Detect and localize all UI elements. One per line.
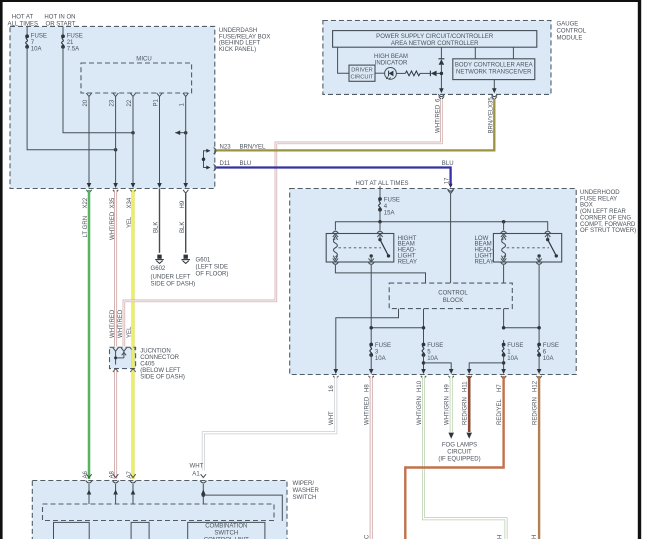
wire from hot-in-on feed to fuse 21 [62,26,64,36]
C405 bottom pin WHT/RED output [113,369,118,372]
svg-text:D11: D11 [220,161,231,167]
svg-text:CIRCUIT: CIRCUIT [350,74,374,80]
high relay NO contact [370,254,373,257]
low relay NO contact [537,254,540,257]
wire bus to high relay switch pin [379,222,381,231]
wire YEL from X34 to wiper switch A7 [132,190,135,479]
wire high relay coil to control block [335,265,425,283]
svg-text:HOT AT: HOT AT [12,15,34,21]
wire WHT/RED from H8 down (cut off) [370,376,373,539]
wire fuse 7 to MICU pin 23 net [27,47,116,150]
MICU pin 20 [86,93,91,96]
high relay coil L1 [333,239,337,257]
supply bus wire [335,222,547,231]
continuation stub wire to MICU pin 1 net [175,132,186,134]
diode D1 (vertical, on CAN line) [438,58,444,60]
svg-text:H: H [532,535,538,539]
wire power supply to driver circuit [338,47,349,73]
svg-text:MICU: MICU [136,57,151,63]
svg-text:FUSE: FUSE [375,343,391,349]
junction at diode node [440,72,444,76]
wire fuse 6 to H12 exit [538,355,540,371]
svg-text:H12: H12 [533,380,539,392]
svg-text:BLOCK: BLOCK [443,298,464,304]
svg-text:A8: A8 [110,470,116,478]
svg-text:UNDERHOOD: UNDERHOOD [580,190,620,196]
svg-text:21: 21 [67,40,74,46]
wire diode to node [437,72,442,74]
svg-text:C405: C405 [140,362,155,368]
wire MICU pin 23 to connector X35 [115,97,117,185]
underhood pin 17 connector [449,184,453,188]
fuse F4 15A [378,197,382,201]
svg-text:CONTROL: CONTROL [438,291,468,297]
svg-text:FUSE: FUSE [384,198,400,204]
svg-text:C: C [365,534,371,539]
wire A7 into switch [132,484,134,504]
svg-text:NETWORK TRANSCEIVER: NETWORK TRANSCEIVER [456,70,532,76]
svg-text:HOT AT ALL TIMES: HOT AT ALL TIMES [355,181,408,187]
svg-text:(BEHIND LEFT: (BEHIND LEFT [219,41,261,47]
junction connector C405 [110,347,136,368]
svg-text:BODY CONTROLLER AREA: BODY CONTROLLER AREA [455,63,534,69]
high beam headlight relay K1 [326,234,394,263]
branch wire fuse 5 to H9 exit [424,363,452,371]
svg-text:A7: A7 [127,470,133,478]
svg-text:INDICATOR: INDICATOR [375,60,408,66]
C405 bottom pin YEL [130,369,135,372]
high relay bottom pin cups [332,262,338,264]
wire A8 into switch [115,484,117,504]
MICU pin P1 [157,93,162,96]
wire low relay coil out of control block [503,309,505,328]
fuse F1 10A [503,340,505,345]
wire WHT/RED from C405 to wiper switch A8 [114,371,117,480]
wire YEL through C405 [132,349,135,369]
svg-text:WHT: WHT [190,463,204,469]
low side fuse bus [504,327,539,329]
svg-text:OF STRUT TOWER): OF STRUT TOWER) [580,228,636,234]
wire power supply to body controller left [474,47,476,59]
svg-text:DRIVER: DRIVER [351,68,373,74]
wiper switch pin A6 [86,474,91,477]
fuse F6 10A [538,340,540,345]
wire fuse 5 to H10 exit with branch [423,355,425,371]
svg-text:(BELOW LEFT: (BELOW LEFT [140,368,181,374]
wire LT GRN from X22 to wiper switch A6 [88,190,91,479]
wire BLU from D11 to underhood pin 17 [217,168,451,187]
svg-text:A1: A1 [192,471,200,477]
C405 internal join of WHT/RED wires [115,351,117,364]
svg-text:COMPT, FORWARD: COMPT, FORWARD [580,222,636,228]
wire YEL from C405 down to wiper switch A7 [132,371,135,480]
svg-text:MODULE: MODULE [557,36,583,42]
wire A6 into switch [88,484,90,504]
svg-text:10A: 10A [427,356,439,362]
fuse F5 10A [423,340,425,345]
svg-text:UNDERDASH: UNDERDASH [219,28,257,34]
wire MICU pin 1 to connector H9 [185,97,187,185]
underhood fuse relay box [290,189,577,375]
gauge module pin 6 connector [439,88,444,93]
ground G601 [184,255,188,259]
svg-text:BRN/YEL: BRN/YEL [489,107,495,134]
wire low relay coil through control block [503,265,505,283]
svg-text:WASHER: WASHER [293,488,320,494]
wire MICU pin P1 (BLK) through box edge [159,97,161,185]
fuse F3 10A [370,340,372,345]
wire resistor to diode [420,72,430,74]
combination switch internal junction strip [43,504,275,521]
wire WHT/GRN from H10 down to lower right [424,376,507,539]
low relay internal dashed link [507,247,549,249]
connector 16 at underhood box edge [334,369,339,374]
svg-text:KICK PANEL): KICK PANEL) [219,47,256,53]
svg-text:LT GRN: LT GRN [83,216,89,238]
connector X35 at underdash box edge [113,190,118,193]
connector H11 at underhood box edge [467,369,472,374]
junction on pin 23 wire [114,148,118,152]
wire fuse 21 to MICU pin 22 net [63,47,133,133]
svg-text:RELAY: RELAY [475,259,494,265]
svg-text:H11: H11 [463,381,469,392]
svg-text:SWITCH: SWITCH [293,495,317,501]
svg-text:HOT IN ON: HOT IN ON [44,15,75,21]
wiper/washer switch box [32,481,287,539]
wire A1 into switch with branch [202,484,204,504]
svg-text:BLK: BLK [154,222,160,233]
svg-text:7.5A: 7.5A [67,46,80,52]
svg-text:WHT/RED: WHT/RED [110,211,116,240]
wire power supply down through diode D1 to pin 6 [440,47,442,59]
high relay internal dashed link [339,247,382,249]
wire lamp to resistor [396,72,405,74]
C405 pin for WHT/RED input 2 [121,348,126,351]
svg-text:WHT/RED: WHT/RED [436,104,442,133]
connector H9 at underdash box edge [183,190,188,193]
wire bus to low relay coil pin [503,222,505,231]
svg-text:OF FLOOR): OF FLOOR) [196,272,229,278]
svg-text:RELAY: RELAY [398,259,417,265]
wiper switch pin A1 connector [201,474,206,477]
wire MICU pin 22 to connector X34 [132,97,134,185]
svg-text:CONTROL: CONTROL [557,28,587,34]
diode D2 (horizontal) [429,71,431,77]
MICU pin 23 [113,93,118,96]
combination switch control unit box [188,522,265,539]
wire blue input to control block [450,193,452,284]
connector H7 at underhood box edge [501,369,506,374]
svg-text:A6: A6 [83,470,89,478]
svg-text:23: 23 [109,99,115,106]
high side fuse bus [371,327,423,329]
svg-text:G601: G601 [196,258,211,264]
junction on pin 1 wire [184,131,188,135]
svg-text:P1: P1 [153,98,159,106]
svg-text:20: 20 [83,99,89,106]
wire from hot-at-all-times feed to fuse 7 [26,26,28,36]
branch wire fuse 1 to H11 exit [469,363,503,371]
svg-text:BLK: BLK [180,222,186,233]
svg-text:(IF EQUIPPED): (IF EQUIPPED) [438,457,480,463]
fuse F7 10A [25,34,29,38]
connector H10 at underhood box edge [421,369,426,374]
wire fuse 4 to bus [379,210,381,222]
svg-text:POWER SUPPLY CIRCUIT/CONTROLLE: POWER SUPPLY CIRCUIT/CONTROLLER [376,34,494,40]
control block U5 [389,283,512,309]
underdash fuse/relay box [10,26,215,188]
svg-text:(UNDER LEFT: (UNDER LEFT [151,275,191,281]
wire BLK from H9 to ground G601 [185,193,187,253]
svg-text:WHT/RED: WHT/RED [110,309,116,338]
junction on pin 22 wire [131,131,135,135]
svg-text:RED/GRN: RED/GRN [463,397,469,425]
combination switch element 1 [54,522,90,539]
low relay bottom pin cups [501,262,507,264]
svg-text:15A: 15A [384,210,396,216]
wire control block WHT output [336,309,399,371]
wire WHT/RED from gauge pin 6 to C405 [124,99,442,347]
svg-text:FUSE RELAY: FUSE RELAY [580,196,617,202]
wire control block to high-side fuse bus [423,309,425,340]
wire BLK from MICU P1 to ground G602 [159,189,161,253]
wire WHT from 16 to wiper switch A1 [203,376,335,471]
svg-text:FOG LAMPS: FOG LAMPS [442,443,477,449]
MICU pin 1 [183,93,188,96]
wire high relay contact down [370,265,372,340]
svg-text:CONNECTOR: CONNECTOR [140,355,179,361]
power supply circuit/controller area networ controller U2 [333,31,537,48]
svg-text:RED/GRN: RED/GRN [533,397,539,425]
connector H9 at underhood box edge [449,369,454,374]
svg-text:FUSE: FUSE [67,34,83,40]
svg-text:CORNER OF ENG: CORNER OF ENG [580,215,631,221]
gauge control module box [323,21,551,95]
wiper switch pin A8 [113,474,118,477]
svg-text:FUSE: FUSE [543,343,559,349]
wire MICU pin 20 to connector X22 [88,97,90,185]
svg-text:FUSE: FUSE [427,343,443,349]
svg-text:H: H [497,535,503,539]
svg-text:COMBINATION: COMBINATION [205,524,247,530]
MICU pin 22 [130,93,135,96]
svg-text:10A: 10A [507,356,519,362]
connector H12 at underhood box edge [537,369,542,374]
svg-text:SIDE OF DASH): SIDE OF DASH) [140,374,185,380]
junction low relay coil feed [502,220,506,224]
svg-text:22: 22 [127,99,133,106]
wire body controller to pin X35 [493,80,495,91]
svg-text:17: 17 [444,177,450,184]
ground G602 [157,255,161,259]
svg-text:BLU: BLU [240,161,252,167]
combination switch element 2 [131,522,149,539]
svg-text:GAUGE: GAUGE [557,21,579,27]
svg-text:10A: 10A [31,46,43,52]
svg-text:BLU: BLU [442,161,454,167]
svg-text:RED/YEL: RED/YEL [497,398,503,425]
svg-text:AREA NETWOR CONTROLLER: AREA NETWOR CONTROLLER [391,41,479,47]
connector N23 at box edge [214,148,216,154]
connector H8 at underhood box edge [369,369,374,374]
wire driver circuit to lamp [375,72,385,74]
high relay switch arm [378,238,381,241]
wire fuse 1 to H7 exit with branch [503,355,505,371]
svg-text:(ON LEFT REAR: (ON LEFT REAR [580,209,627,215]
wire power supply to body controller right [512,47,514,59]
low relay coil L2 [502,239,506,257]
bracket wire joining N23 and D11 [204,151,208,168]
connector X34 at underdash box edge [130,190,135,193]
wire hot feed to fuse 4 [379,186,381,199]
svg-text:10A: 10A [375,356,387,362]
svg-text:HIGH BEAM: HIGH BEAM [374,54,408,60]
gauge module pin X35 connector [492,88,497,93]
high beam indicator lamp DS1 [385,68,397,80]
C405 pin for WHT/RED input 1 [113,348,118,351]
branch wire from A1 node to combination switch unit [203,495,282,521]
svg-text:SIDE OF DASH): SIDE OF DASH) [151,282,196,288]
svg-text:BOX: BOX [580,203,593,209]
svg-text:WIPER/: WIPER/ [293,481,315,487]
MICU U1 [81,63,192,93]
low relay switch arm [546,238,549,241]
wire fuse 3 to H8 exit [370,355,372,371]
svg-text:FUSE: FUSE [31,34,47,40]
svg-text:SWITCH: SWITCH [214,531,238,537]
resistor R1 [405,71,420,76]
wire BRN/YEL from gauge pin X35 to N23 [217,99,495,150]
body controller area network transceiver U4 [453,59,535,80]
junction fuse4/high relay [378,220,382,224]
wire WHT/GRN from H9 to fog lamps circuit [450,376,453,432]
wire RED/YEL from H7 down to combination switch [405,376,503,539]
svg-text:YEL: YEL [127,216,133,228]
svg-text:OR START: OR START [45,22,75,28]
low relay top pin cups [501,231,507,233]
driver circuit U3 [349,65,375,81]
svg-text:ALL TIMES: ALL TIMES [8,22,39,28]
svg-text:JUCNTION: JUCNTION [140,349,171,355]
wiper switch pin A7 [130,474,135,477]
high relay top pin cups [332,231,338,233]
svg-text:YEL: YEL [127,326,133,338]
fuse F21 7.5A [61,34,65,38]
connector X22 at underdash box edge [86,190,91,193]
svg-text:10A: 10A [543,356,555,362]
svg-text:FUSE/RELAY BOX: FUSE/RELAY BOX [219,34,271,40]
svg-text:FUSE: FUSE [507,343,523,349]
svg-text:H7: H7 [497,384,503,392]
C405 pin for YEL pass-through top [130,348,135,351]
connector D11 at box edge [214,164,216,170]
svg-text:CIRCUIT: CIRCUIT [447,450,472,456]
wire RED/GRN from H11 to fog lamps circuit [468,376,471,432]
wire low relay contact down [538,265,540,340]
wire RED/GRN from H12 down (cut off) [538,376,540,539]
low beam headlight relay K2 [493,234,561,263]
wire WHT/RED from X35 to junction connector C405 [114,190,117,347]
svg-text:(LEFT SIDE: (LEFT SIDE [196,265,228,271]
svg-text:G602: G602 [151,266,166,272]
